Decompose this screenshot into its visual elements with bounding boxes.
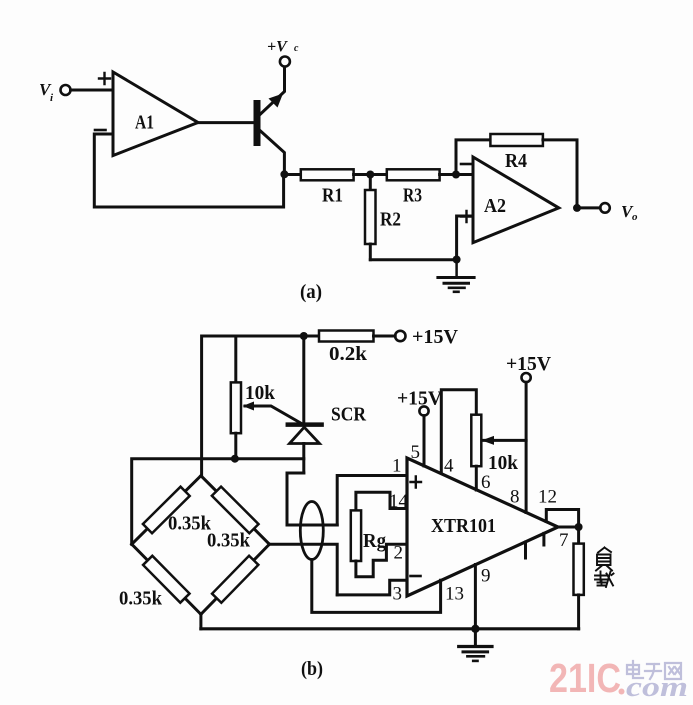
svg-text:0.35k: 0.35k xyxy=(168,513,212,535)
pin 6 wire and label xyxy=(476,466,490,493)
node +Vc supply terminal xyxy=(267,39,299,67)
svg-text:R3: R3 xyxy=(403,185,422,207)
svg-text:+V: +V xyxy=(267,39,288,56)
label 负载 load xyxy=(595,548,614,588)
op-amp XTR101 xyxy=(407,458,558,596)
svg-text:XTR101: XTR101 xyxy=(431,515,496,537)
wire SCR cathode to twisted pair top xyxy=(287,473,337,525)
watermark 电子网 xyxy=(627,661,681,679)
node +15V terminal right xyxy=(506,353,552,382)
svg-text:o: o xyxy=(632,211,638,223)
bridge arm resistor 0.35k bottom-left xyxy=(119,544,201,614)
wire ground node to A2 plus input xyxy=(457,216,473,260)
svg-text:com: com xyxy=(626,671,688,703)
resistor R3 xyxy=(387,169,440,206)
wire R4 to output node xyxy=(543,140,577,208)
svg-text:Rg: Rg xyxy=(363,530,386,552)
svg-text:10k: 10k xyxy=(488,452,519,474)
node R3 feedback junction xyxy=(452,171,460,179)
svg-text:A2: A2 xyxy=(484,195,506,217)
pin 7 output and stubs xyxy=(526,527,579,558)
svg-text:A1: A1 xyxy=(135,112,154,134)
node +15V terminal mid xyxy=(397,388,443,416)
pin 9 wire and label xyxy=(475,565,490,629)
thyristor SCR xyxy=(288,336,367,473)
resistor 0.2k xyxy=(304,331,395,366)
wire shield to pin 13 rail xyxy=(312,560,441,613)
bridge arm resistor 0.35k top-right xyxy=(201,476,270,552)
svg-text:10k: 10k xyxy=(245,382,276,404)
svg-text:13: 13 xyxy=(445,584,464,605)
wire 10k wiper arrow xyxy=(482,436,527,445)
wire bridge top rail xyxy=(132,459,304,545)
svg-text:R4: R4 xyxy=(505,150,527,172)
wire emitter node to R1 xyxy=(284,173,300,176)
svg-text:14: 14 xyxy=(389,491,409,512)
pin 5 wire and label xyxy=(411,416,425,466)
node output junction pin 7 xyxy=(575,523,583,531)
potentiometer 10k right xyxy=(471,415,519,474)
svg-text:(a): (a) xyxy=(300,281,322,303)
potentiometer 10k left xyxy=(231,382,276,459)
svg-text:R1: R1 xyxy=(322,185,343,207)
svg-text:9: 9 xyxy=(481,566,491,587)
ground part b xyxy=(459,629,492,661)
bridge arm resistor bottom-right xyxy=(201,544,270,614)
svg-text:0.35k: 0.35k xyxy=(207,530,251,552)
node SCR anode junction xyxy=(300,332,308,340)
node pot bottom junction xyxy=(231,455,239,463)
svg-text:3: 3 xyxy=(393,584,403,605)
svg-text:SCR: SCR xyxy=(331,404,366,426)
wire R2 bottom to ground node xyxy=(370,258,456,261)
wire bottom ground rail xyxy=(201,627,579,630)
wire R1 to node and R3 xyxy=(354,173,387,176)
resistor R4 xyxy=(490,134,543,172)
resistor load 负载 xyxy=(574,527,584,629)
svg-text:12: 12 xyxy=(538,487,557,508)
svg-text:6: 6 xyxy=(481,472,491,493)
node Vo output terminal xyxy=(600,202,638,223)
wire pin 3 loop xyxy=(337,580,407,595)
svg-text:21IC: 21IC xyxy=(549,655,621,701)
svg-text:R2: R2 xyxy=(380,209,401,231)
ground part a xyxy=(438,260,474,292)
node A2 noninverting ground junction xyxy=(453,256,461,264)
node emitter junction xyxy=(280,170,288,178)
pin 4 wire and label xyxy=(441,390,476,477)
wire SCR wiper arm with arrow xyxy=(243,402,302,424)
node ground junction part b xyxy=(471,625,479,633)
svg-text:+15V: +15V xyxy=(412,326,459,348)
wire bridge right vertex twisted pair bottom xyxy=(269,544,337,595)
wire top rail part b xyxy=(202,336,304,476)
op-amp A2 xyxy=(461,157,559,243)
wire bridge bottom vertex to ground rail xyxy=(199,614,202,629)
wire A1 inverting input feedback xyxy=(94,134,283,207)
svg-text:0.35k: 0.35k xyxy=(119,588,163,610)
svg-text:(b): (b) xyxy=(301,658,323,680)
svg-text:0.2k: 0.2k xyxy=(329,343,368,365)
wire feedback loop up through R4 xyxy=(456,140,490,175)
pin 12 loop and label xyxy=(538,487,579,527)
node Vi input terminal xyxy=(39,80,71,104)
node +15V terminal top xyxy=(395,326,458,348)
svg-text:5: 5 xyxy=(411,442,421,463)
wire R3 to A2 inverting input xyxy=(440,173,473,176)
svg-text:+15V: +15V xyxy=(506,353,552,375)
svg-text:7: 7 xyxy=(559,530,569,551)
wire Rg bottom staircase to pin 2 xyxy=(356,544,407,577)
svg-text:8: 8 xyxy=(510,487,520,508)
svg-text:4: 4 xyxy=(444,456,454,477)
bridge arm resistor 0.35k top-left xyxy=(132,476,212,545)
svg-text:2: 2 xyxy=(394,543,404,564)
wire Vi to A1 plus input xyxy=(71,89,114,92)
resistor R2 xyxy=(365,175,401,260)
svg-text:+15V: +15V xyxy=(397,388,443,410)
transistor Q1 xyxy=(254,67,285,170)
wire twisted pair top to pin 1 xyxy=(337,476,407,526)
op-amp A1 xyxy=(95,72,198,156)
wire A1 output to Q1 base xyxy=(198,121,254,124)
wire inner loop to pin 14 xyxy=(356,492,406,510)
resistor R1 xyxy=(301,169,354,206)
pin 8 wire and label xyxy=(510,382,526,512)
svg-text:c: c xyxy=(294,43,299,54)
node A2 output junction xyxy=(573,204,581,212)
node R1 R2 R3 junction xyxy=(366,171,374,179)
wire output to Vo terminal xyxy=(577,206,600,209)
cable shield ellipse xyxy=(300,502,323,560)
wire pot top lead xyxy=(234,336,237,382)
svg-text:1: 1 xyxy=(392,456,402,477)
resistor Rg xyxy=(351,510,386,561)
